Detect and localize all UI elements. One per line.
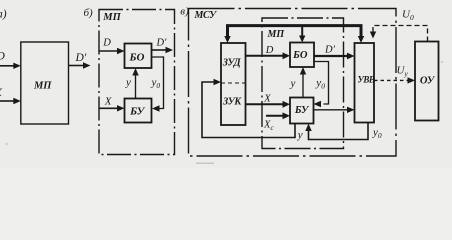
svg-text:МП: МП <box>267 29 286 40</box>
svg-text:БУ: БУ <box>294 105 310 116</box>
svg-text:БО: БО <box>129 52 145 64</box>
svg-text:в): в) <box>180 6 189 18</box>
svg-text:D′: D′ <box>75 52 87 64</box>
svg-text:у: у <box>125 76 131 88</box>
svg-text:ЗУК: ЗУК <box>222 97 242 108</box>
svg-text:D: D <box>265 45 274 56</box>
svg-text:D′: D′ <box>156 37 168 48</box>
svg-text:МП: МП <box>102 12 121 23</box>
svg-text:а): а) <box>0 9 7 21</box>
svg-text:у: у <box>297 129 303 141</box>
svg-text:МП: МП <box>33 81 52 92</box>
svg-text:б): б) <box>84 7 94 19</box>
svg-text:ОУ: ОУ <box>420 76 436 87</box>
svg-text:D′: D′ <box>324 44 336 55</box>
svg-text:D: D <box>102 38 111 49</box>
svg-text:D: D <box>0 51 6 63</box>
svg-text:ЗУД: ЗУД <box>222 58 242 69</box>
svg-text:БУ: БУ <box>129 106 146 118</box>
svg-text:БО: БО <box>292 50 308 61</box>
svg-text:у: у <box>290 77 296 89</box>
svg-text:X: X <box>263 94 271 105</box>
svg-text:УВВ: УВВ <box>357 75 374 85</box>
svg-text:МСУ: МСУ <box>194 10 218 21</box>
svg-text:X: X <box>104 96 113 108</box>
